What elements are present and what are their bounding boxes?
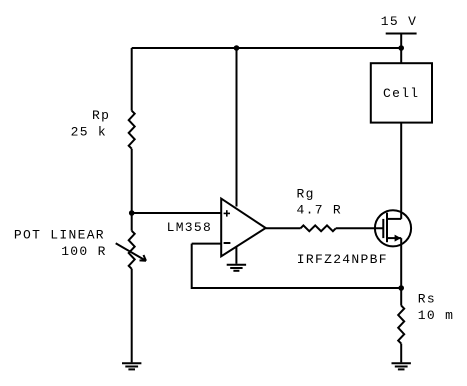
svg-text:25 k: 25 k <box>71 125 107 140</box>
svg-text:4.7 R: 4.7 R <box>297 203 343 218</box>
svg-text:100 R: 100 R <box>61 244 107 259</box>
svg-text:Rs: Rs <box>418 291 436 306</box>
svg-text:IRFZ24NPBF: IRFZ24NPBF <box>297 252 388 267</box>
svg-text:15 V: 15 V <box>381 14 417 29</box>
svg-text:Rp: Rp <box>92 108 110 123</box>
svg-text:LM358: LM358 <box>167 220 213 235</box>
svg-text:10 m: 10 m <box>418 308 454 323</box>
svg-text:POT LINEAR: POT LINEAR <box>14 227 105 242</box>
svg-text:Rg: Rg <box>297 187 315 202</box>
svg-text:Cell: Cell <box>383 86 419 101</box>
